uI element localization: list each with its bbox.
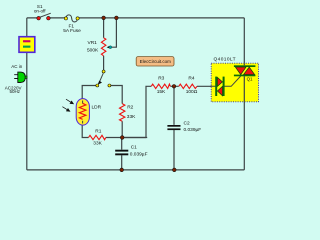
svg-text:C1: C1: [131, 145, 137, 151]
svg-text:Q4010LT: Q4010LT: [214, 56, 236, 62]
svg-text:VR1: VR1: [88, 40, 98, 46]
svg-text:33K: 33K: [127, 114, 136, 120]
svg-text:5A Fuse: 5A Fuse: [63, 28, 81, 34]
svg-text:100Ω: 100Ω: [186, 89, 198, 95]
svg-text:R4: R4: [188, 75, 194, 81]
svg-text:500K: 500K: [87, 48, 99, 54]
svg-text:0.039µF: 0.039µF: [184, 127, 202, 133]
svg-text:R2: R2: [127, 104, 133, 110]
svg-text:LDR: LDR: [92, 105, 102, 111]
svg-text:Q1: Q1: [247, 77, 253, 82]
svg-text:ElecCircuit.com: ElecCircuit.com: [140, 59, 172, 64]
svg-text:33K: 33K: [93, 141, 102, 147]
svg-text:15K: 15K: [157, 89, 166, 95]
svg-text:R1: R1: [95, 128, 101, 134]
svg-text:AC in: AC in: [11, 64, 23, 69]
svg-text:C2: C2: [184, 120, 190, 126]
svg-text:R3: R3: [158, 75, 164, 81]
svg-text:on-off: on-off: [34, 8, 46, 13]
svg-text:0.039µF: 0.039µF: [130, 152, 148, 158]
svg-text:50Hz: 50Hz: [10, 89, 21, 94]
